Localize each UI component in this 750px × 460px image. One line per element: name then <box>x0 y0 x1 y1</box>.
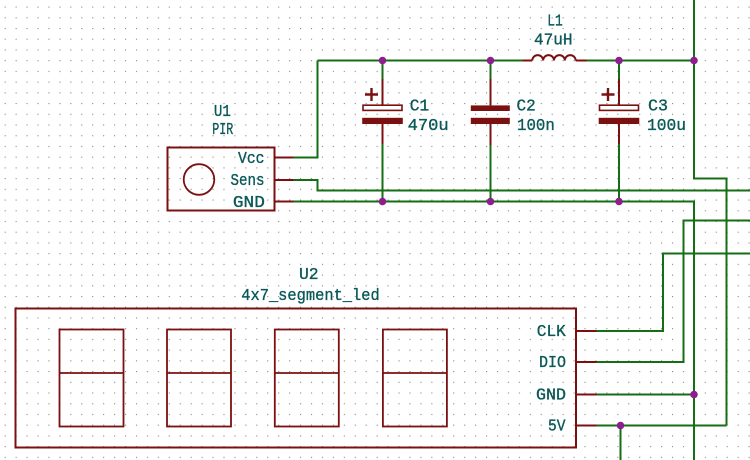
svg-text:47uH: 47uH <box>534 32 573 51</box>
svg-text:Vcc: Vcc <box>238 150 265 169</box>
svg-text:C3: C3 <box>648 98 668 117</box>
svg-text:470u: 470u <box>408 117 449 136</box>
svg-text:PIR: PIR <box>212 121 233 140</box>
svg-text:100n: 100n <box>517 117 555 136</box>
svg-text:GND: GND <box>233 194 265 213</box>
svg-text:DIO: DIO <box>539 354 566 373</box>
svg-text:GND: GND <box>536 387 566 406</box>
svg-text:C2: C2 <box>517 97 536 116</box>
svg-text:5V: 5V <box>548 418 566 437</box>
svg-text:CLK: CLK <box>537 323 567 342</box>
svg-text:Sens: Sens <box>231 172 265 191</box>
svg-text:C1: C1 <box>410 98 429 117</box>
svg-text:L1: L1 <box>547 12 563 31</box>
svg-text:100u: 100u <box>647 117 686 136</box>
svg-text:U1: U1 <box>214 103 231 122</box>
svg-text:4x7_segment_led: 4x7_segment_led <box>241 287 380 306</box>
svg-text:U2: U2 <box>299 266 319 285</box>
